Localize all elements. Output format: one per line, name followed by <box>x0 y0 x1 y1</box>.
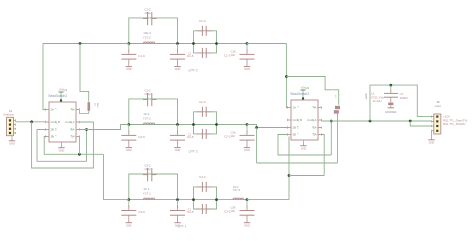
wire cap-pair loop <box>194 31 217 44</box>
capacitor C1-6 <box>128 44 130 52</box>
wire to bead L4 <box>80 44 89 102</box>
svg-text:Y27-1: Y27-1 <box>143 191 151 195</box>
wire LPF3 top <box>43 43 129 45</box>
junction <box>192 198 195 201</box>
svg-text:GND: GND <box>126 68 132 71</box>
wire LPF3 out <box>247 43 286 45</box>
svg-text:1F-2: 1F-2 <box>143 112 150 116</box>
wire <box>217 124 248 126</box>
ground <box>61 142 63 146</box>
svg-text:10k-3: 10k-3 <box>143 31 151 35</box>
svg-text:Y27-2: Y27-2 <box>233 188 241 192</box>
capacitor C2-1 <box>201 129 203 139</box>
capacitor C3-2 <box>147 168 149 181</box>
power +5V supply <box>60 92 62 102</box>
ground <box>303 144 305 146</box>
wire bead to run2 <box>337 114 339 163</box>
wire to J2 pin3 <box>410 121 431 126</box>
svg-text:GND: GND <box>9 142 15 145</box>
wire 3B run <box>44 137 103 155</box>
junction <box>215 42 218 45</box>
svg-text:GND: GND <box>429 141 435 144</box>
svg-text:BLM: BLM <box>96 103 98 108</box>
junction <box>85 128 88 131</box>
svg-text:GND: GND <box>126 149 132 152</box>
wire cap-pair loop <box>194 112 217 125</box>
wire bridge loop <box>129 18 178 44</box>
capacitor C3-5 <box>177 200 179 208</box>
power +5V supply <box>302 90 304 100</box>
wire up to 3B <box>288 137 290 200</box>
ground J1 <box>11 136 13 139</box>
svg-text:GND: GND <box>59 149 65 152</box>
svg-text:100p: 100p <box>144 167 151 171</box>
svg-text:GND: GND <box>301 147 307 150</box>
junction <box>246 42 249 45</box>
wire 3A leg <box>322 135 325 176</box>
ground C7 <box>388 103 393 106</box>
wire U3 Com_A to J2 <box>322 120 432 122</box>
wire run2 <box>257 162 338 164</box>
wire 3A leg <box>78 137 80 155</box>
junction <box>330 120 333 123</box>
svg-text:BeadSwitch2: BeadSwitch2 <box>291 92 310 96</box>
junction <box>246 198 249 201</box>
svg-text:GND: GND <box>244 224 250 227</box>
wire <box>129 124 217 126</box>
capacitor C3-1 <box>201 204 203 214</box>
svg-text:C2-3: C2-3 <box>199 100 206 104</box>
ground <box>246 145 248 147</box>
wire 2B loop <box>37 130 87 162</box>
junction <box>192 42 195 45</box>
svg-text:LPF 1: LPF 1 <box>177 225 186 229</box>
ground <box>246 64 248 66</box>
svg-text:10n: 10n <box>231 53 236 57</box>
wire down <box>256 128 258 164</box>
svg-text:C1-3: C1-3 <box>199 19 206 23</box>
svg-text:BeadSwitch2: BeadSwitch2 <box>49 94 68 98</box>
ferrite bead L4 <box>88 102 91 111</box>
junction node antenna <box>30 120 33 123</box>
svg-text:100p: 100p <box>144 92 151 96</box>
svg-text:LPF 2: LPF 2 <box>188 150 197 154</box>
svg-text:100p: 100p <box>144 11 151 15</box>
svg-text:1F-1: 1F-1 <box>143 187 150 191</box>
svg-text:GND: GND <box>175 149 181 152</box>
junction <box>127 42 130 45</box>
wire 2A to LPF2 input <box>80 125 129 130</box>
svg-text:2B: 2B <box>293 126 297 130</box>
wire down to U3 1A <box>286 44 287 108</box>
wire LPF2 out to U3 2B <box>247 125 288 128</box>
wire run1 <box>278 135 331 156</box>
wire <box>129 199 217 201</box>
capacitor C1-3 <box>201 26 203 36</box>
junction <box>409 120 412 123</box>
wire +12V loop <box>370 85 432 121</box>
svg-text:12 4uH: 12 4uH <box>373 99 382 103</box>
op-amp U3 BeadSwitch2 analog switch <box>291 100 318 140</box>
junction <box>176 42 179 45</box>
junction <box>255 126 258 129</box>
ground <box>11 139 13 141</box>
junction <box>192 123 195 126</box>
svg-text:+12V: +12V <box>364 93 368 100</box>
svg-text:C1-6: C1-6 <box>138 54 145 58</box>
wire cap-pair loop <box>194 187 217 200</box>
capacitor C16 <box>246 44 248 52</box>
ground <box>177 64 179 66</box>
capacitor C26 <box>246 125 248 133</box>
junction <box>78 153 81 156</box>
capacitor C2-5 <box>177 125 179 133</box>
svg-text:Antenna: Antenna <box>3 112 14 116</box>
capacitor C1-5 <box>177 44 179 52</box>
svg-text:Y27-2: Y27-2 <box>143 35 151 39</box>
capacitor C3-6 <box>128 200 130 208</box>
svg-text:Y27-2: Y27-2 <box>143 116 151 120</box>
junction <box>215 198 218 201</box>
capacitor C1-2 <box>147 12 149 25</box>
svg-text:10n: 10n <box>231 209 236 213</box>
svg-text:RS1 TTL_RX(RX): RS1 TTL_RX(RX) <box>443 122 465 126</box>
capacitor C2-2 <box>147 93 149 106</box>
junction <box>246 123 249 126</box>
ground <box>128 221 130 223</box>
svg-text:C3-3: C3-3 <box>199 175 206 179</box>
svg-text:GND: GND <box>175 68 181 71</box>
svg-text:100nF: 100nF <box>400 96 409 100</box>
connector J1 Antenna <box>7 117 14 135</box>
svg-text:1A: 1A <box>51 108 55 112</box>
svg-text:1A: 1A <box>293 106 297 110</box>
capacitor C36 <box>246 200 248 208</box>
svg-text:U1: U1 <box>64 88 68 92</box>
svg-text:GND: GND <box>126 224 132 227</box>
svg-text:10n: 10n <box>231 134 236 138</box>
svg-text:LPF 3: LPF 3 <box>188 69 197 73</box>
svg-text:C2-6: C2-6 <box>138 135 145 139</box>
wire bridge loop <box>129 174 178 200</box>
wire to LPF1 input <box>104 154 129 199</box>
junction <box>176 123 179 126</box>
ground <box>303 140 305 144</box>
wire <box>217 43 248 45</box>
junction <box>79 42 82 45</box>
svg-text:GNDREF: GNDREF <box>385 110 397 114</box>
svg-text:GND: GND <box>244 149 250 152</box>
junction <box>215 123 218 126</box>
svg-text:3B: 3B <box>293 133 297 137</box>
wire J1 to U1 Com_B <box>16 121 47 123</box>
capacitor C7 <box>390 85 392 91</box>
ferrite bead L3 <box>335 106 340 109</box>
svg-text:input: input <box>435 104 441 108</box>
junction <box>288 174 291 177</box>
wire 1A to LPF3 input <box>43 44 46 110</box>
connector J2 input <box>434 114 441 134</box>
ground <box>128 64 130 66</box>
junction <box>176 198 179 201</box>
ground <box>431 138 433 140</box>
svg-text:U3: U3 <box>306 86 310 90</box>
ground J2 <box>431 131 433 138</box>
junction <box>127 198 130 201</box>
ground <box>246 221 248 223</box>
wire up to Com net <box>330 121 332 155</box>
junction <box>369 120 372 123</box>
wire bead to 4A <box>80 111 89 114</box>
wire <box>129 43 217 45</box>
wire to bead L3 <box>286 77 338 105</box>
svg-text:3B: 3B <box>51 135 55 139</box>
junction <box>127 123 130 126</box>
ground <box>128 145 130 147</box>
ground <box>61 146 63 148</box>
wire <box>217 199 248 201</box>
wire run3 <box>289 175 324 177</box>
ground <box>177 221 179 223</box>
op-amp U1 BeadSwitch2 analog switch <box>49 102 76 142</box>
ground <box>177 145 179 147</box>
capacitor C2-3 <box>201 107 203 117</box>
junction <box>389 84 392 87</box>
capacitor C3-3 <box>201 182 203 192</box>
wire LPF1 out <box>247 199 289 201</box>
ground <box>390 106 392 108</box>
svg-text:C3-6: C3-6 <box>138 210 145 214</box>
junction <box>285 75 288 78</box>
svg-text:GND: GND <box>244 68 250 71</box>
wire bridge loop <box>129 99 178 125</box>
capacitor C1-1 <box>201 48 203 58</box>
svg-text:2B: 2B <box>51 128 55 132</box>
wire antenna loop to Com_A <box>32 122 94 168</box>
capacitor C2-6 <box>128 125 130 133</box>
